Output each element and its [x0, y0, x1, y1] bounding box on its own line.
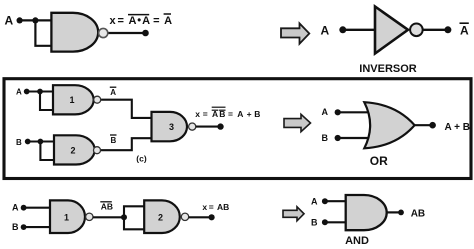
svg-text:AND: AND [345, 235, 369, 247]
svg-text:(c): (c) [136, 154, 147, 164]
svg-text:x: x [110, 15, 117, 27]
svg-text:2: 2 [70, 146, 75, 156]
svg-text:A: A [237, 109, 243, 119]
svg-text:A: A [460, 24, 469, 38]
svg-text:A: A [321, 24, 330, 38]
svg-text:A + B: A + B [445, 122, 470, 133]
svg-text:+: + [247, 109, 252, 119]
svg-text:x: x [202, 202, 207, 212]
svg-text:=: = [203, 109, 208, 119]
svg-text:1: 1 [64, 213, 69, 223]
svg-text:B: B [254, 109, 260, 119]
svg-text:A: A [164, 15, 172, 27]
svg-text:AB: AB [411, 209, 425, 220]
svg-text:B: B [111, 136, 117, 145]
svg-text:1: 1 [69, 95, 74, 105]
svg-text:A: A [311, 197, 318, 207]
svg-text:A: A [12, 203, 19, 213]
svg-text:•: • [137, 15, 141, 27]
svg-text:=: = [153, 15, 159, 27]
svg-text:=: = [209, 202, 214, 212]
svg-text:3: 3 [169, 122, 174, 132]
svg-text:=: = [228, 109, 233, 119]
svg-text:A: A [142, 15, 150, 27]
svg-text:AB: AB [101, 202, 113, 212]
svg-text:A: A [5, 14, 14, 28]
svg-text:A: A [16, 87, 22, 96]
svg-text:B: B [311, 218, 318, 228]
svg-text:INVERSOR: INVERSOR [359, 63, 417, 75]
svg-text:x: x [195, 109, 200, 119]
svg-text:A: A [110, 88, 116, 97]
svg-text:OR: OR [370, 154, 388, 168]
svg-text:A: A [129, 15, 137, 27]
svg-text:B: B [322, 133, 329, 143]
svg-text:A: A [322, 107, 329, 117]
svg-text:B: B [12, 222, 19, 232]
svg-text:B: B [16, 138, 22, 147]
svg-text:AB: AB [217, 202, 229, 212]
svg-text:=: = [118, 15, 124, 27]
svg-text:2: 2 [158, 213, 163, 223]
